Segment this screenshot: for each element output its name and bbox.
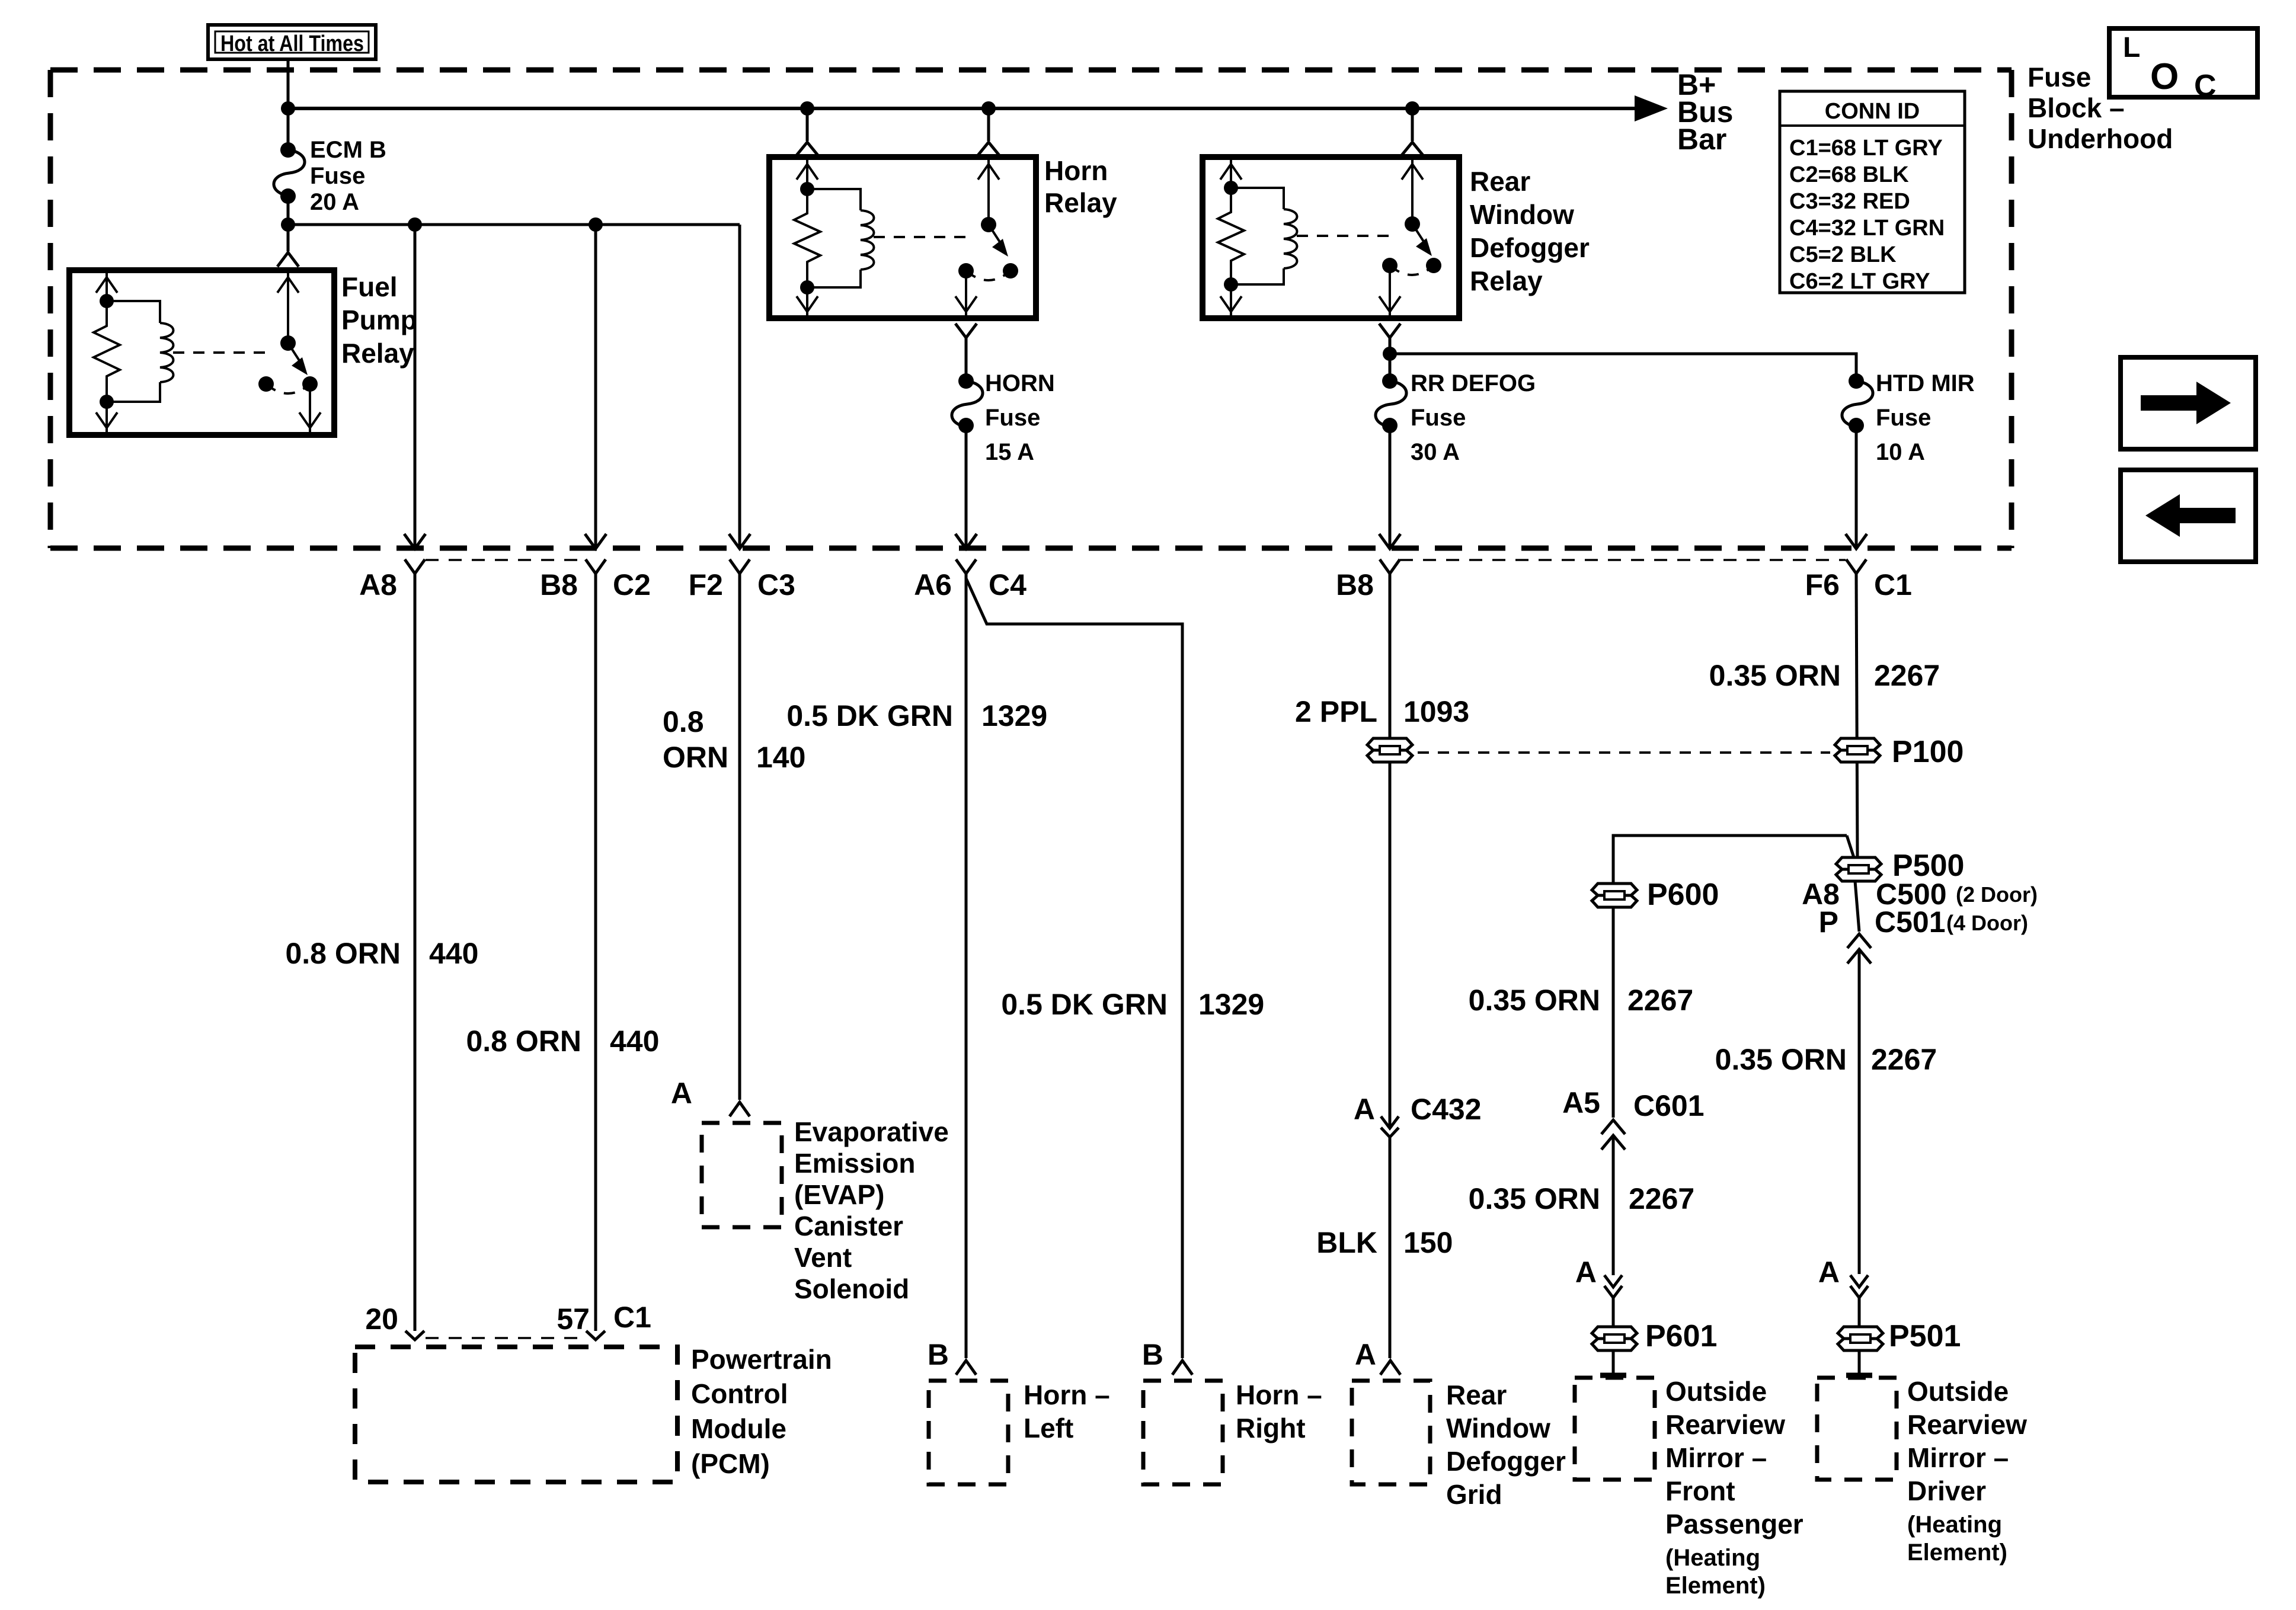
wire: C3 to EVAP solenoid [738, 574, 741, 1100]
fuse block underhood dashed box [50, 70, 2012, 548]
grommet on defog wire [1367, 738, 1412, 762]
svg-text:B8: B8 [540, 568, 578, 601]
svg-text:ECM B: ECM B [310, 137, 386, 163]
svg-text:Horn –: Horn – [1236, 1379, 1322, 1410]
svg-text:20 A: 20 A [310, 189, 359, 215]
connector A5 / C601 [1562, 1086, 1704, 1150]
fuse HORN 15 A [952, 370, 1055, 465]
label 2 PPL 1093 [1295, 695, 1469, 728]
svg-text:(Heating: (Heating [1665, 1545, 1760, 1571]
svg-text:(Heating: (Heating [1907, 1512, 2002, 1538]
svg-text:C: C [2194, 69, 2217, 103]
relay: Fuel Pump Relay [69, 270, 417, 435]
svg-text:Emission: Emission [794, 1148, 916, 1179]
switch contacts (horn relay) [958, 263, 974, 279]
switch contacts (fuel pump relay) [258, 376, 274, 392]
wire: C1 mirror feed [1856, 574, 1857, 857]
wire from Hot at All Times to bus [287, 59, 290, 108]
svg-text:2267: 2267 [1871, 1043, 1937, 1076]
wire: P601 to passenger mirror box [1600, 1350, 1626, 1375]
svg-text:C501: C501 [1875, 905, 1946, 939]
svg-text:A: A [671, 1077, 692, 1110]
connector A8/P C500/C501 [1802, 878, 2038, 964]
relay: Rear Window Defogger Relay [1203, 157, 1590, 318]
svg-text:440: 440 [610, 1025, 659, 1058]
wire: B8 defog to grid [1389, 574, 1392, 1126]
svg-text:Pump: Pump [341, 305, 417, 335]
switch arm (fuel pump relay) [288, 343, 301, 363]
svg-text:C601: C601 [1633, 1089, 1705, 1122]
svg-text:Outside: Outside [1665, 1376, 1767, 1407]
svg-text:(4 Door): (4 Door) [1946, 911, 2028, 935]
pin F2 / C3 [689, 225, 795, 601]
svg-text:BLK: BLK [1316, 1226, 1377, 1259]
svg-text:2267: 2267 [1629, 1182, 1694, 1215]
resistor (defogger relay) [1218, 188, 1244, 284]
svg-text:C1: C1 [1874, 568, 1912, 601]
svg-text:Relay: Relay [341, 338, 414, 369]
svg-text:Mirror –: Mirror – [1907, 1442, 2009, 1473]
switch arm (horn relay) [989, 225, 1002, 245]
dashed pass-through link to P100 [1418, 751, 1830, 754]
EVAP canister vent solenoid box [702, 1116, 949, 1304]
wire: horizontal feed line below ECM B fuse [288, 223, 740, 226]
svg-text:P601: P601 [1645, 1319, 1717, 1353]
wire: HORN fuse to border [955, 425, 977, 549]
LOC icon box [2109, 28, 2257, 103]
wire: RR DEFOG fuse to border [1379, 425, 1400, 549]
wire: defogger relay output [1379, 324, 1400, 381]
svg-text:2267: 2267 [1874, 659, 1940, 692]
svg-text:ORN: ORN [663, 741, 728, 774]
svg-text:Fuse: Fuse [985, 405, 1040, 431]
svg-text:Left: Left [1024, 1413, 1073, 1443]
connector dashed link B8-F6 [1400, 559, 1846, 561]
svg-text:Rear: Rear [1446, 1379, 1507, 1410]
svg-text:Element): Element) [1907, 1539, 2007, 1566]
label 0.8 ORN 440 (second) [466, 1025, 659, 1058]
wire: bus to horn relay coil [797, 108, 818, 155]
pin A6 / C4 [914, 534, 1027, 601]
svg-text:Horn –: Horn – [1024, 1379, 1110, 1410]
svg-text:Canister: Canister [794, 1211, 903, 1241]
wire: bus to defogger relay switch [1402, 108, 1423, 155]
svg-text:2267: 2267 [1627, 984, 1693, 1017]
relay: Horn Relay [769, 155, 1117, 318]
node: bus junction horn coil [800, 101, 814, 116]
svg-text:A6: A6 [914, 568, 952, 601]
svg-text:1093: 1093 [1403, 695, 1469, 728]
svg-text:57: 57 [557, 1302, 590, 1336]
svg-text:O: O [2150, 56, 2179, 97]
svg-text:C6=2 LT GRY: C6=2 LT GRY [1789, 269, 1930, 294]
svg-text:A5: A5 [1562, 1086, 1600, 1119]
node: bus junction defogger switch [1405, 101, 1419, 116]
svg-text:Outside: Outside [1907, 1376, 2009, 1407]
pin B at Horn Left [928, 1338, 976, 1375]
node: junction B8 wire [589, 217, 603, 232]
svg-text:(2 Door): (2 Door) [1956, 882, 2038, 907]
Outside Rearview Mirror Driver box [1817, 1376, 2027, 1566]
svg-text:A: A [1818, 1256, 1840, 1289]
wire: feed down to fuel pump relay with connector chevron [277, 225, 299, 267]
fuse RR DEFOG 30 A [1376, 370, 1536, 465]
Horn Right box [1143, 1379, 1322, 1484]
svg-text:RR DEFOG: RR DEFOG [1411, 370, 1536, 396]
svg-text:Relay: Relay [1044, 187, 1117, 218]
svg-text:(PCM): (PCM) [691, 1448, 770, 1479]
svg-text:(EVAP): (EVAP) [794, 1179, 885, 1210]
Powertrain Control Module box [355, 1344, 832, 1482]
svg-text:150: 150 [1403, 1226, 1453, 1259]
svg-text:Front: Front [1665, 1475, 1735, 1506]
svg-text:0.8: 0.8 [663, 705, 704, 738]
svg-text:0.35 ORN: 0.35 ORN [1469, 1182, 1600, 1215]
svg-text:0.35 ORN: 0.35 ORN [1709, 659, 1841, 692]
switch contacts (defogger relay) [1382, 258, 1398, 273]
label 0.5 DK GRN 1329 [786, 699, 1047, 732]
svg-text:Solenoid: Solenoid [794, 1273, 909, 1304]
svg-text:Relay: Relay [1470, 265, 1543, 296]
pin B8 / C2 [540, 225, 651, 601]
svg-text:Right: Right [1236, 1413, 1306, 1443]
resistor (horn relay) [794, 189, 820, 287]
svg-text:Powertrain: Powertrain [691, 1344, 832, 1375]
svg-text:C1: C1 [613, 1301, 651, 1334]
svg-text:B: B [1142, 1338, 1163, 1371]
svg-text:Vent: Vent [794, 1242, 852, 1273]
Horn Left box [929, 1379, 1110, 1484]
svg-text:20: 20 [365, 1302, 398, 1336]
wire: horn relay output to HORN fuse [955, 324, 977, 381]
svg-text:0.8 ORN: 0.8 ORN [285, 937, 401, 970]
Fuse Block - Underhood label [2028, 62, 2173, 154]
svg-text:C2=68 BLK: C2=68 BLK [1789, 162, 1909, 187]
svg-text:Horn: Horn [1044, 155, 1108, 186]
connector A at P601 [1575, 1256, 1622, 1298]
svg-text:Rear: Rear [1470, 166, 1530, 197]
resistor (fuel pump relay) [94, 301, 120, 402]
svg-text:B: B [928, 1338, 949, 1371]
svg-text:Grid: Grid [1446, 1479, 1502, 1510]
B+ Bus Bar label [1677, 68, 1733, 156]
label BLK 150 [1316, 1226, 1453, 1259]
svg-text:Hot at All Times: Hot at All Times [220, 31, 364, 56]
svg-text:Fuse: Fuse [1876, 405, 1931, 431]
svg-text:B8: B8 [1336, 568, 1374, 601]
svg-text:Defogger: Defogger [1446, 1446, 1566, 1477]
svg-text:A: A [1354, 1093, 1375, 1126]
svg-text:440: 440 [429, 937, 478, 970]
label 0.35 ORN 2267 (passenger upper) [1469, 984, 1694, 1017]
svg-text:0.8 ORN: 0.8 ORN [466, 1025, 581, 1058]
pin B8 (defog) [1336, 559, 1400, 601]
coil winding (defogger relay) [1284, 209, 1297, 268]
wire: bus to horn relay switch [978, 108, 999, 155]
svg-text:HORN: HORN [985, 370, 1055, 396]
svg-text:F6: F6 [1805, 568, 1840, 601]
grommet P601 [1592, 1319, 1717, 1353]
grommet P500 [1836, 849, 1964, 883]
svg-text:L: L [2123, 32, 2140, 63]
svg-text:F2: F2 [689, 568, 723, 601]
svg-text:Driver: Driver [1907, 1475, 1986, 1506]
node: junction to HTD MIR branch [1383, 347, 1397, 361]
grommet P100 [1835, 735, 1964, 769]
svg-text:A: A [1575, 1256, 1597, 1289]
pin F6 / C1 [1805, 559, 1912, 601]
label 0.35 ORN 2267 [1709, 659, 1940, 692]
pin B at Horn Right [1142, 1338, 1192, 1375]
wire: branch to HTD MIR fuse [1390, 354, 1856, 381]
wire: branch to Horn Right [966, 578, 1182, 1358]
svg-text:Fuel: Fuel [341, 271, 398, 302]
svg-text:P501: P501 [1889, 1319, 1961, 1353]
connector A at P501 [1818, 1256, 1868, 1298]
label 0.5 DK GRN 1329 (second) [1001, 988, 1264, 1021]
svg-text:A8: A8 [359, 568, 397, 601]
svg-text:0.5 DK GRN: 0.5 DK GRN [786, 699, 953, 732]
svg-text:Window: Window [1446, 1413, 1550, 1443]
wire: C4 to Horn Left [965, 574, 968, 1358]
switch arm (defogger relay) [1412, 224, 1425, 244]
svg-text:Module: Module [691, 1413, 786, 1444]
svg-text:P600: P600 [1647, 878, 1719, 912]
svg-text:A: A [1355, 1338, 1376, 1371]
label 0.35 ORN 2267 (driver) [1715, 1043, 1937, 1076]
svg-text:Underhood: Underhood [2028, 123, 2173, 154]
svg-text:Element): Element) [1665, 1573, 1766, 1599]
CONN ID table [1780, 91, 1965, 294]
node: junction A8 wire [408, 217, 422, 232]
svg-text:Bar: Bar [1677, 123, 1726, 156]
svg-text:C4: C4 [989, 568, 1027, 601]
node: bus junction horn switch [981, 101, 996, 116]
svg-text:Fuse: Fuse [2028, 62, 2091, 92]
pin A8 [359, 225, 426, 601]
svg-text:C3=32 RED: C3=32 RED [1789, 189, 1910, 214]
svg-text:C432: C432 [1411, 1093, 1482, 1126]
svg-text:Passenger: Passenger [1665, 1509, 1803, 1539]
wire: B8 to PCM pin 57 [594, 574, 597, 1331]
PCM connector pins 20 / 57 / C1 [365, 1301, 651, 1340]
grommet P600 [1592, 878, 1719, 912]
fuse ECM B 20 A [274, 108, 386, 225]
svg-text:Rearview: Rearview [1907, 1409, 2027, 1440]
svg-text:C1=68 LT GRY: C1=68 LT GRY [1789, 136, 1943, 161]
wire: P600 to C601 [1612, 907, 1615, 1118]
connector dashed link A8-B8 [426, 559, 584, 561]
node: junction at ECM B fuse output [281, 217, 295, 232]
svg-text:30 A: 30 A [1411, 439, 1460, 465]
Outside Rearview Mirror Front Passenger box [1575, 1376, 1803, 1599]
svg-text:Defogger: Defogger [1470, 232, 1590, 263]
svg-text:Rearview: Rearview [1665, 1409, 1785, 1440]
svg-text:2 PPL: 2 PPL [1295, 695, 1377, 728]
pin A at EVAP [671, 1077, 750, 1116]
svg-text:Window: Window [1470, 199, 1574, 230]
node: bus junction at ECM B [281, 101, 295, 116]
svg-text:1329: 1329 [1198, 988, 1264, 1021]
grommet P501 [1838, 1319, 1961, 1353]
svg-text:CONN ID: CONN ID [1825, 99, 1920, 124]
svg-text:Fuse: Fuse [310, 163, 365, 189]
svg-text:Control: Control [691, 1378, 788, 1409]
coil winding (horn relay) [861, 210, 874, 270]
wire: C501 to driver mirror [1858, 950, 1861, 1274]
svg-text:HTD MIR: HTD MIR [1876, 370, 1975, 396]
right arrow icon box [2121, 357, 2256, 449]
label 0.8 ORN 140 [663, 705, 805, 774]
svg-text:140: 140 [756, 741, 805, 774]
fuse HTD MIR 10 A [1842, 370, 1975, 465]
wire: branch to P600 [1613, 836, 1847, 884]
wire: A8 to PCM pin 20 [414, 574, 417, 1331]
label 0.8 ORN 440 [285, 937, 478, 970]
label 0.35 ORN 2267 (passenger lower) [1469, 1182, 1695, 1215]
svg-text:Fuse: Fuse [1411, 405, 1466, 431]
svg-text:P: P [1819, 905, 1838, 939]
left arrow icon box [2121, 470, 2256, 562]
svg-text:C5=2 BLK: C5=2 BLK [1789, 242, 1897, 267]
svg-text:C4=32 LT GRN: C4=32 LT GRN [1789, 216, 1945, 241]
Hot at All Times label box [208, 25, 376, 59]
svg-text:0.35 ORN: 0.35 ORN [1715, 1043, 1847, 1076]
svg-text:C3: C3 [757, 568, 795, 601]
connector A / C432 [1354, 1093, 1482, 1137]
svg-text:0.35 ORN: 0.35 ORN [1469, 984, 1600, 1017]
pin A at defogger grid [1355, 1338, 1400, 1375]
svg-text:Mirror –: Mirror – [1665, 1442, 1767, 1473]
svg-text:15 A: 15 A [985, 439, 1034, 465]
wire: P501 to driver mirror box [1846, 1350, 1872, 1375]
svg-text:P100: P100 [1892, 735, 1964, 769]
svg-text:1329: 1329 [981, 699, 1047, 732]
wire: HTD MIR fuse to border [1846, 425, 1867, 549]
svg-text:Evaporative: Evaporative [794, 1116, 949, 1147]
Rear Window Defogger Grid box [1352, 1379, 1566, 1510]
coil winding (fuel pump relay) [160, 323, 174, 382]
svg-text:10 A: 10 A [1876, 439, 1925, 465]
svg-text:0.5 DK GRN: 0.5 DK GRN [1001, 988, 1168, 1021]
svg-text:C2: C2 [613, 568, 651, 601]
B+ bus bar line with arrow [288, 95, 1668, 121]
